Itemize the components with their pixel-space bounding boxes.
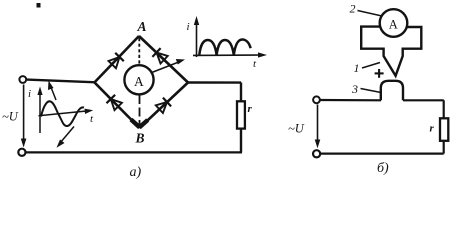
thermocouple bracket outline — [361, 27, 421, 76]
wire terminal to bump — [320, 99, 381, 102]
diode D1 (left-top arm) — [109, 53, 124, 68]
svg-text:A: A — [389, 18, 398, 32]
resistor r (a) — [237, 101, 245, 128]
wire bridge right node to corner — [188, 81, 241, 83]
wire resistor to bottom corner — [443, 141, 445, 154]
svg-text:3: 3 — [351, 82, 358, 96]
wire corner down to resistor — [240, 83, 242, 102]
diode D4 (bottom-right arm) — [156, 98, 171, 113]
svg-text:б): б) — [377, 161, 389, 176]
meter A2 — [380, 9, 408, 37]
wire resistor to bottom — [240, 129, 242, 153]
voltage arrow U — [21, 85, 27, 148]
graph axes i/t (input sine) — [37, 87, 93, 134]
bold node B vee — [131, 120, 148, 128]
bottom wire (b) — [321, 153, 444, 155]
bridge diamond sides — [95, 36, 189, 128]
svg-text:r: r — [430, 123, 435, 135]
svg-text:r: r — [248, 103, 253, 115]
needle arrow from meter — [151, 59, 186, 73]
bottom wire — [26, 151, 242, 153]
wire top-left to bridge left node — [27, 80, 97, 83]
leader arrow to top wire — [48, 81, 56, 101]
terminal bottom (b) — [313, 150, 320, 157]
svg-text:i: i — [187, 21, 190, 33]
terminal top (b) — [313, 96, 320, 103]
graph axes i/t (rectified) — [193, 16, 267, 58]
ammeter A1 — [124, 65, 153, 94]
terminal top-left — [19, 76, 26, 83]
plus sign — [375, 69, 384, 78]
sine curve — [41, 101, 84, 126]
diode D3 (left-bottom arm) — [107, 95, 122, 110]
svg-text:i: i — [28, 88, 31, 100]
rectified humps — [199, 40, 250, 56]
leader from 3 — [361, 89, 382, 93]
speck artifact top edge — [37, 3, 41, 8]
terminal bottom-left — [18, 149, 25, 156]
svg-text:B: B — [135, 131, 145, 146]
svg-text:а): а) — [130, 165, 142, 180]
dashed link meter to B — [139, 95, 141, 126]
svg-text:A: A — [134, 74, 144, 89]
leader from 1 — [362, 63, 380, 69]
leader arrow to bottom wire — [57, 127, 75, 148]
heater bump — [381, 81, 403, 101]
wire corner down — [443, 100, 445, 118]
leader from 2 to meter — [358, 11, 383, 17]
diode D2 (top-right arm) — [152, 48, 167, 63]
voltage arrow U (b) — [315, 105, 321, 149]
svg-text:2: 2 — [350, 2, 356, 16]
svg-text:1: 1 — [354, 61, 360, 75]
svg-text:A: A — [137, 19, 147, 34]
svg-text:~U: ~U — [2, 110, 19, 124]
resistor r (b) — [440, 118, 448, 141]
svg-text:~U: ~U — [288, 122, 305, 136]
dotted link A to meter — [138, 38, 140, 65]
wire bump to corner — [403, 99, 444, 101]
